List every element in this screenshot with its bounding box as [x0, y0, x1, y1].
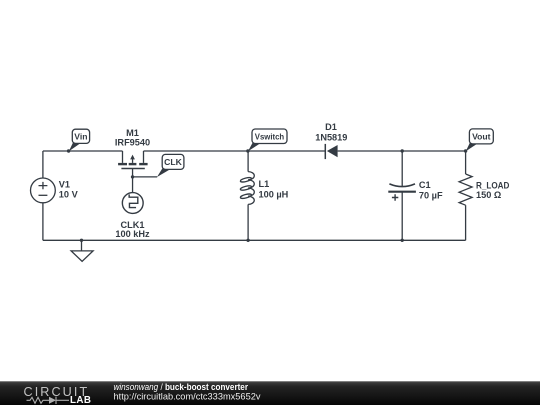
node Vout junction dot	[464, 149, 467, 152]
node C1 top junction dot	[401, 149, 404, 152]
svg-text:10 V: 10 V	[59, 189, 79, 199]
svg-text:C1: C1	[419, 180, 431, 190]
footer CircuitLab logo wordmark	[24, 385, 92, 405]
svg-text:D1: D1	[325, 122, 337, 132]
capacitor C1 (polarized)	[388, 151, 416, 240]
wire left rail lower (V1 bottom to bottom wire)	[42, 203, 44, 241]
node ground junction dot	[80, 239, 83, 242]
label L1 designator and value	[259, 179, 289, 199]
transistor M1 (PMOS IRF9540)	[118, 151, 148, 169]
svg-text:Vin: Vin	[74, 132, 87, 142]
wire right rail lower (R_LOAD to bottom wire)	[465, 205, 467, 240]
voltage source V1	[31, 178, 56, 203]
wire top-left segment (Vin rail to M1 drain)	[43, 150, 123, 152]
svg-text:IRF9540: IRF9540	[115, 138, 150, 148]
wire right rail upper (Vout corner to R_LOAD)	[465, 151, 467, 174]
flag Vout	[466, 129, 494, 151]
svg-text:100 kHz: 100 kHz	[115, 229, 150, 239]
svg-text:http://circuitlab.com/ctc333mx: http://circuitlab.com/ctc333mx5652v	[114, 391, 261, 401]
svg-text:LAB: LAB	[70, 395, 91, 405]
clock source CLK1	[122, 193, 143, 214]
flag CLK	[157, 154, 184, 177]
footer bar	[0, 381, 540, 405]
node C1 bottom junction dot	[401, 239, 404, 242]
label C1 designator and value	[419, 180, 443, 201]
label V1 designator and value	[59, 180, 79, 200]
wire left rail upper (V1 top to top wire)	[42, 151, 44, 178]
node junction dot at M1 gate	[131, 175, 134, 178]
wire bottom rail	[43, 239, 466, 241]
label CLK1 designator and value	[115, 220, 150, 239]
footer logo schematic squiggle (resistor + diode)	[27, 397, 70, 404]
diode D1 (1N5819)	[325, 144, 337, 159]
wire M1 gate down to CLK1	[132, 169, 134, 193]
flag Vswitch	[248, 129, 287, 151]
flag Vin	[69, 129, 90, 151]
svg-text:L1: L1	[259, 179, 270, 189]
ground	[71, 240, 93, 261]
svg-text:Vswitch: Vswitch	[255, 132, 284, 142]
inductor L1	[240, 151, 254, 240]
wire top-right segment (D1 anode to Vout corner)	[338, 150, 466, 152]
node Vin junction dot	[67, 149, 70, 152]
svg-text:100 µH: 100 µH	[259, 189, 289, 199]
svg-text:R_LOAD: R_LOAD	[476, 181, 510, 191]
svg-text:150 Ω: 150 Ω	[476, 190, 501, 200]
svg-text:V1: V1	[59, 180, 70, 190]
wire top-middle segment (M1 source to D1 cathode)	[144, 150, 326, 152]
label R_LOAD designator and value	[476, 181, 510, 201]
svg-text:1N5819: 1N5819	[315, 132, 347, 142]
wire gate tap to CLK flag	[133, 176, 158, 178]
label M1 designator and value	[115, 128, 150, 147]
label D1 designator and value	[315, 122, 347, 142]
resistor R_LOAD	[459, 174, 472, 205]
node L1 bottom junction dot	[246, 239, 249, 242]
svg-text:70 µF: 70 µF	[419, 191, 443, 201]
svg-text:Vout: Vout	[472, 131, 491, 141]
svg-text:CLK: CLK	[164, 157, 182, 167]
node Vswitch junction dot	[246, 149, 249, 152]
